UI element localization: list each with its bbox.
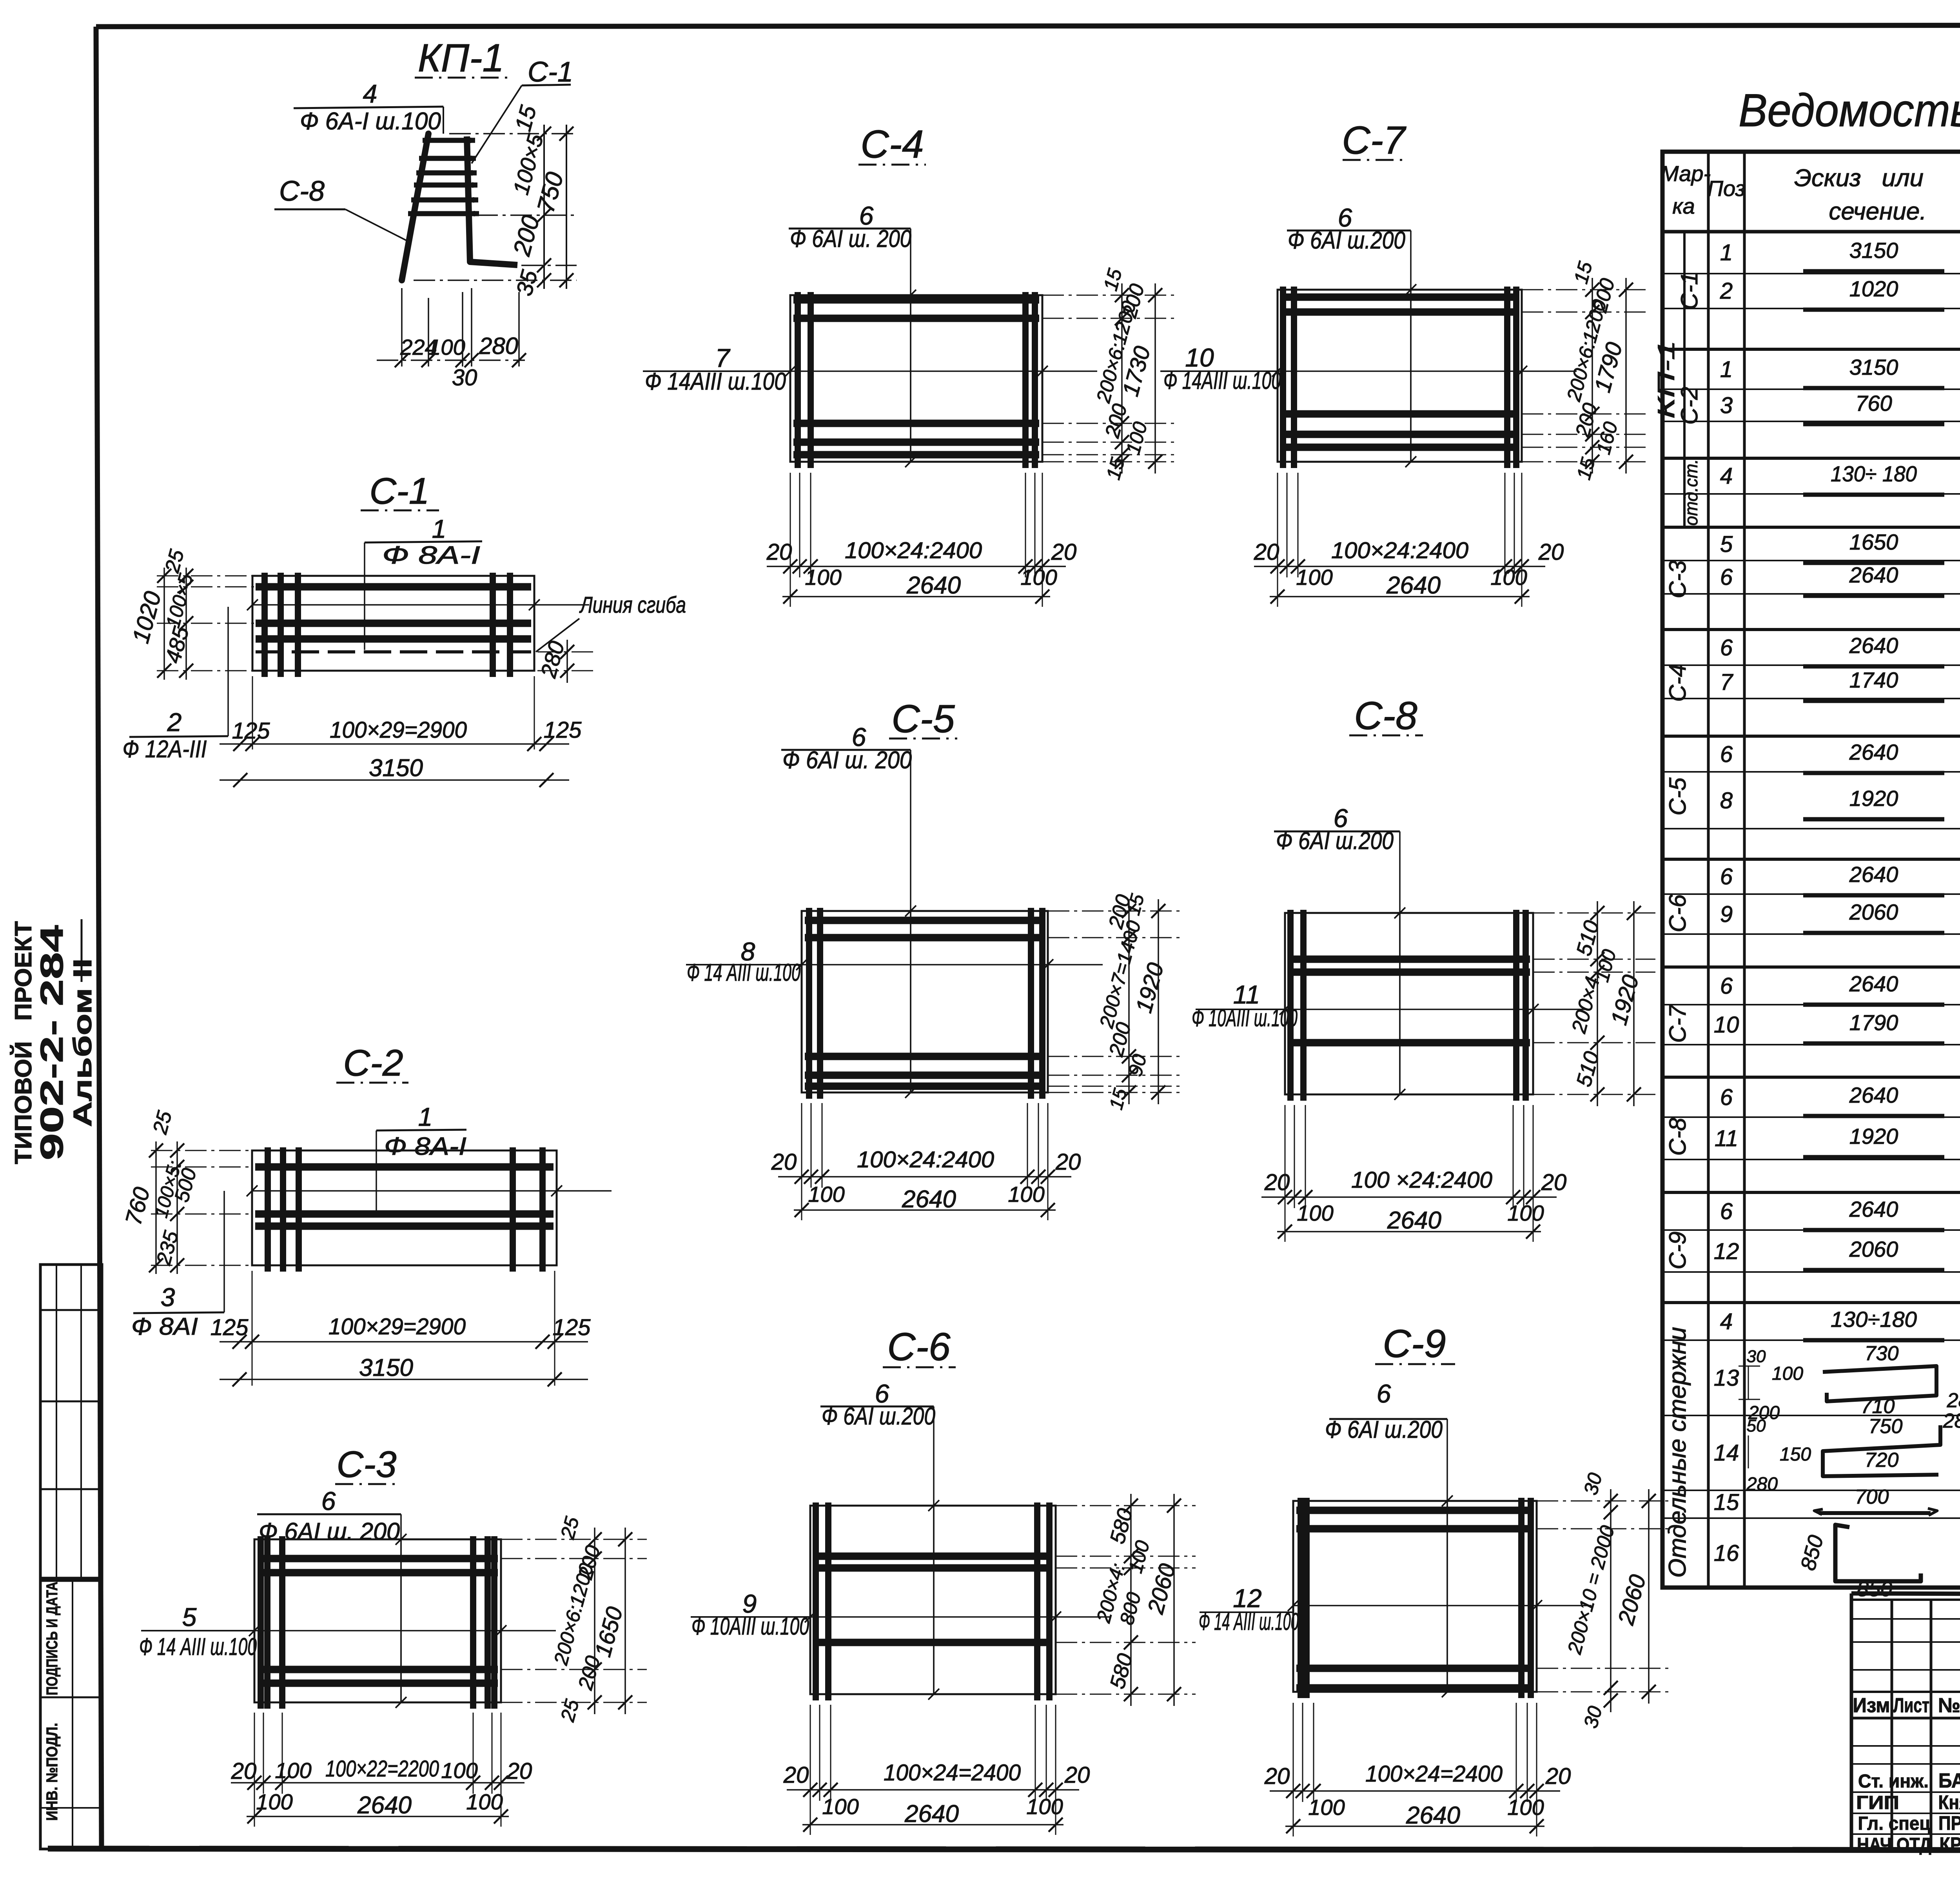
svg-text:30: 30 [1747, 1347, 1766, 1366]
thick horizontal bars [793, 296, 1039, 304]
svg-text:С-9: С-9 [1383, 1322, 1446, 1366]
svg-text:100: 100 [805, 565, 841, 590]
svg-text:3: 3 [1720, 393, 1733, 418]
svg-text:2640: 2640 [1386, 572, 1441, 599]
fold dashed line [256, 650, 531, 653]
svg-text:2640: 2640 [902, 1186, 956, 1213]
left margin lower stamp table [40, 1580, 102, 1849]
thick horizontal bars [813, 1553, 1053, 1560]
svg-text:С-8: С-8 [1664, 1118, 1691, 1156]
svg-text:30: 30 [452, 365, 477, 390]
svg-text:13: 13 [1714, 1365, 1739, 1391]
svg-text:100: 100 [1297, 1201, 1333, 1225]
svg-text:1020: 1020 [1849, 276, 1898, 301]
svg-text:С-6: С-6 [887, 1325, 951, 1369]
svg-text:1650: 1650 [1849, 530, 1898, 554]
bottom dimension lines [1277, 473, 1278, 577]
svg-text:Ф 6А-I ш.100: Ф 6А-I ш.100 [300, 108, 441, 135]
svg-text:Эскиз или: Эскиз или [1794, 165, 1924, 192]
right dimension lines [1533, 913, 1655, 914]
wire crossline [1293, 1605, 1592, 1606]
svg-text:Ф 12А-III: Ф 12А-III [123, 736, 207, 763]
svg-text:2640: 2640 [1406, 1802, 1460, 1829]
svg-text:100: 100 [1507, 1795, 1544, 1820]
svg-text:1790: 1790 [1849, 1010, 1898, 1035]
С-1 right dim 280 [537, 651, 596, 653]
mesh outline [252, 1150, 557, 1265]
svg-text:14: 14 [1714, 1440, 1739, 1466]
wire centerline [910, 911, 911, 1092]
svg-text:ПОДПИСЬ И ДАТА: ПОДПИСЬ И ДАТА [44, 1582, 61, 1695]
svg-text:1920: 1920 [1849, 1124, 1898, 1149]
svg-text:125: 125 [553, 1315, 591, 1340]
svg-text:НАЧ.ОТД: НАЧ.ОТД [1857, 1834, 1931, 1855]
svg-text:С-1: С-1 [369, 470, 429, 512]
svg-text:20: 20 [783, 1762, 809, 1788]
svg-text:2060: 2060 [1849, 1237, 1898, 1261]
svg-text:С-5: С-5 [891, 697, 955, 741]
right dimension lines [1042, 295, 1177, 296]
svg-text:ка: ка [1672, 194, 1695, 218]
svg-text:С-6: С-6 [1664, 894, 1691, 932]
bottom dimension lines [801, 1103, 802, 1188]
svg-text:100×22=2200: 100×22=2200 [325, 1756, 439, 1782]
svg-text:20: 20 [1051, 539, 1077, 565]
thick vertical bars [261, 573, 268, 677]
svg-text:С-4: С-4 [1664, 664, 1691, 702]
svg-text:100: 100 [441, 1758, 477, 1783]
С-2 left dims [151, 1150, 253, 1151]
svg-text:2640: 2640 [1849, 563, 1898, 587]
svg-text:Отдельные стержни: Отдельные стержни [1664, 1327, 1691, 1578]
svg-text:280: 280 [1746, 1474, 1778, 1495]
svg-text:Княгиничев: Княгиничев [1938, 1791, 1960, 1813]
svg-text:С-2: С-2 [1676, 387, 1702, 425]
svg-text:Поз: Поз [1707, 176, 1745, 201]
wire centerline [1446, 1501, 1448, 1692]
svg-text:2640: 2640 [1849, 1197, 1898, 1221]
svg-text:730: 730 [1865, 1342, 1899, 1365]
wire centerline [1410, 290, 1412, 462]
thick vertical bars [1287, 910, 1294, 1101]
svg-text:20: 20 [231, 1758, 257, 1784]
svg-text:6: 6 [321, 1486, 336, 1515]
wire centerline [1399, 913, 1401, 1094]
thick vertical bars [813, 1502, 819, 1700]
svg-text:5: 5 [1720, 532, 1733, 557]
svg-text:сечение.: сечение. [1829, 198, 1927, 225]
bottom dimension lines [254, 1713, 255, 1794]
svg-text:Ф 10АIII ш.100: Ф 10АIII ш.100 [691, 1613, 809, 1640]
svg-text:125: 125 [211, 1315, 249, 1340]
svg-text:2640: 2640 [1849, 740, 1898, 764]
wire crossline [790, 370, 1097, 372]
svg-text:125: 125 [232, 718, 270, 744]
title block inner grid left [1891, 1600, 1893, 1849]
svg-text:16: 16 [1714, 1541, 1739, 1566]
svg-text:10: 10 [1714, 1012, 1739, 1038]
svg-text:С-3: С-3 [1664, 561, 1691, 599]
thick horizontal bars [1288, 956, 1530, 963]
svg-text:100: 100 [822, 1794, 858, 1819]
mesh outline [1278, 290, 1522, 462]
svg-text:6: 6 [1720, 1085, 1733, 1110]
svg-text:Ф 8А-I: Ф 8А-I [384, 1132, 466, 1160]
svg-text:Ф 14 АIII ш.100: Ф 14 АIII ш.100 [139, 1633, 257, 1660]
svg-text:2060: 2060 [1849, 900, 1898, 924]
С-2 bottom dims [252, 1271, 253, 1386]
svg-text:Ф 6АI ш.200: Ф 6АI ш.200 [1325, 1416, 1443, 1443]
svg-text:6: 6 [1720, 973, 1733, 999]
svg-text:Мар-: Мар- [1661, 161, 1711, 186]
thick vertical bars [806, 908, 812, 1099]
svg-text:8: 8 [1720, 788, 1733, 813]
svg-text:20: 20 [1064, 1762, 1090, 1788]
svg-text:6: 6 [1720, 635, 1733, 660]
svg-text:Изм: Изм [1853, 1694, 1890, 1717]
svg-text:760: 760 [1855, 391, 1892, 416]
svg-text:700: 700 [1855, 1486, 1889, 1508]
svg-text:С-4: С-4 [860, 122, 924, 166]
svg-text:3150: 3150 [1849, 355, 1898, 379]
КП-1 ladder left rail С-8 bar [402, 134, 428, 280]
svg-text:50: 50 [1747, 1416, 1766, 1435]
svg-text:2640: 2640 [1849, 862, 1898, 887]
svg-text:100: 100 [1507, 1201, 1544, 1225]
svg-text:С-8: С-8 [1354, 694, 1417, 738]
svg-text:20: 20 [1055, 1149, 1081, 1175]
left margin upper stamp table [40, 1265, 102, 1578]
svg-text:ПРОНИН: ПРОНИН [1938, 1812, 1960, 1834]
КП-1 right dimension lines [449, 133, 577, 134]
wire crossline [252, 1190, 612, 1192]
svg-text:100×24:2400: 100×24:2400 [845, 538, 982, 563]
svg-text:Ф 14 АIII ш.100: Ф 14 АIII ш.100 [1199, 1608, 1299, 1635]
thick horizontal bars [805, 917, 1045, 924]
svg-text:2: 2 [167, 708, 182, 737]
svg-text:Ф 8АI: Ф 8АI [131, 1313, 198, 1340]
svg-text:КРАСАВИН: КРАСАВИН [1940, 1833, 1960, 1855]
svg-text:20: 20 [1264, 1170, 1290, 1195]
svg-text:1: 1 [432, 514, 446, 543]
svg-text:С-2: С-2 [343, 1042, 403, 1084]
svg-text:Ф 6АI ш. 200: Ф 6АI ш. 200 [782, 747, 912, 774]
svg-text:20: 20 [1545, 1764, 1571, 1789]
wire crossline [254, 1630, 556, 1631]
thick horizontal bars [1296, 1507, 1534, 1514]
svg-text:2640: 2640 [1849, 1083, 1898, 1107]
svg-text:20: 20 [771, 1149, 797, 1175]
svg-text:БАЗАНОВ: БАЗАНОВ [1938, 1769, 1960, 1792]
right dimension lines [1056, 1505, 1196, 1506]
svg-text:ИНВ. №ПОДЛ.: ИНВ. №ПОДЛ. [44, 1723, 61, 1821]
svg-text:20: 20 [1538, 539, 1564, 565]
right dimension lines [1048, 911, 1180, 912]
bottom dimension lines [1293, 1703, 1294, 1802]
svg-text:Ф 6АI ш.200: Ф 6АI ш.200 [1288, 227, 1405, 254]
bottom dimension lines [790, 473, 791, 577]
svg-text:130÷ 180: 130÷ 180 [1831, 461, 1917, 486]
svg-text:Лист: Лист [1893, 1694, 1929, 1717]
page border frame [96, 25, 1960, 27]
svg-text:С-8: С-8 [279, 176, 325, 207]
mesh outline [1293, 1501, 1537, 1692]
left bar schedule table [1662, 152, 1960, 1588]
mesh outline [254, 1539, 501, 1702]
svg-text:11: 11 [1715, 1126, 1738, 1151]
svg-text:100: 100 [1296, 565, 1332, 590]
svg-text:100×29=2900: 100×29=2900 [328, 1314, 466, 1339]
svg-text:20: 20 [1254, 539, 1279, 565]
svg-text:6: 6 [1720, 864, 1733, 889]
svg-text:20: 20 [766, 539, 792, 565]
thick horizontal bars [258, 1555, 498, 1562]
svg-text:ТИПОВОЙ ПРОЕКТ: ТИПОВОЙ ПРОЕКТ [10, 921, 36, 1164]
thick vertical bars [265, 1147, 271, 1272]
svg-text:20: 20 [1541, 1170, 1567, 1195]
mesh outline [790, 295, 1042, 462]
svg-text:100: 100 [1008, 1182, 1044, 1207]
thick horizontal bars [255, 1163, 554, 1171]
svg-text:Линия сгиба: Линия сгиба [579, 592, 686, 618]
svg-text:2640: 2640 [1387, 1207, 1441, 1234]
svg-text:Ф 8А-I: Ф 8А-I [382, 541, 480, 569]
КП-1 bottom dimensions [401, 288, 403, 367]
svg-text:280: 280 [1943, 1410, 1960, 1432]
svg-text:отд.ст.: отд.ст. [1681, 459, 1701, 526]
svg-text:15: 15 [1714, 1490, 1739, 1515]
svg-text:С-9: С-9 [1664, 1232, 1691, 1270]
svg-text:№ докум.: № докум. [1938, 1694, 1960, 1717]
svg-text:20: 20 [506, 1758, 532, 1784]
svg-text:100×24:2400: 100×24:2400 [857, 1147, 994, 1172]
svg-text:100: 100 [1490, 565, 1527, 590]
svg-text:3150: 3150 [1849, 238, 1898, 263]
thick vertical bars [795, 292, 801, 468]
svg-text:1: 1 [1720, 240, 1733, 265]
mesh outline [252, 576, 534, 671]
thick horizontal bars [1281, 294, 1519, 301]
svg-text:Ф 6АI ш. 200: Ф 6АI ш. 200 [790, 225, 911, 252]
mesh outline [802, 911, 1048, 1092]
thick vertical bars [1280, 287, 1286, 468]
bottom dimension lines [810, 1705, 811, 1801]
wire centerline [400, 1539, 402, 1702]
svg-text:Альбом II: Альбом II [68, 958, 97, 1127]
svg-text:100: 100 [1308, 1795, 1345, 1820]
svg-text:100×29=2900: 100×29=2900 [330, 717, 467, 743]
svg-text:2: 2 [1720, 278, 1733, 304]
svg-text:Ф 14АIII ш.100: Ф 14АIII ш.100 [645, 368, 786, 395]
svg-text:С-1: С-1 [528, 56, 573, 88]
svg-text:С-7: С-7 [1664, 1004, 1691, 1043]
thick horizontal bars [256, 583, 531, 591]
wire crossline [252, 604, 589, 606]
thick vertical bars [1298, 1498, 1304, 1698]
svg-text:Гл. спец: Гл. спец [1858, 1813, 1931, 1834]
svg-text:1920: 1920 [1849, 786, 1898, 811]
svg-text:100 ×24:2400: 100 ×24:2400 [1351, 1167, 1492, 1193]
svg-text:100: 100 [1026, 1794, 1063, 1819]
svg-text:280: 280 [1947, 1389, 1960, 1412]
svg-text:130÷180: 130÷180 [1831, 1307, 1917, 1332]
svg-text:Ф 14АIII ш.100: Ф 14АIII ш.100 [1163, 367, 1281, 394]
wire centerline [933, 1506, 935, 1694]
svg-text:5: 5 [182, 1602, 197, 1631]
mesh outline [810, 1506, 1056, 1694]
title block frame [1851, 1593, 1960, 1596]
svg-text:3150: 3150 [369, 755, 423, 782]
thick vertical bars [258, 1536, 264, 1709]
svg-text:4: 4 [363, 79, 377, 108]
С-1 bottom dims [252, 676, 253, 749]
svg-text:3150: 3150 [359, 1354, 413, 1381]
svg-text:100: 100 [466, 1789, 503, 1814]
svg-text:С-7: С-7 [1342, 118, 1406, 162]
svg-text:9: 9 [1720, 902, 1733, 927]
svg-text:20: 20 [1264, 1764, 1290, 1789]
svg-text:КП-1: КП-1 [418, 36, 504, 80]
svg-text:7: 7 [1720, 670, 1734, 695]
svg-text:6: 6 [1377, 1379, 1391, 1408]
svg-text:150: 150 [1780, 1444, 1811, 1465]
svg-text:1: 1 [1720, 357, 1733, 382]
svg-text:3: 3 [161, 1283, 175, 1312]
svg-text:100×24:2400: 100×24:2400 [1331, 538, 1468, 563]
svg-text:6: 6 [1720, 1199, 1733, 1224]
svg-text:2640: 2640 [1849, 633, 1898, 658]
svg-text:6: 6 [1720, 742, 1733, 767]
svg-text:720: 720 [1865, 1449, 1899, 1472]
wire crossline [802, 964, 1103, 965]
svg-text:2640: 2640 [1849, 971, 1898, 996]
svg-text:280: 280 [479, 333, 518, 359]
wire crossline [1285, 1009, 1588, 1010]
svg-text:100: 100 [256, 1789, 292, 1814]
svg-text:100×24=2400: 100×24=2400 [884, 1760, 1021, 1785]
wire centerline [910, 295, 911, 462]
svg-text:С-5: С-5 [1664, 777, 1691, 815]
svg-text:1740: 1740 [1849, 668, 1898, 692]
КП-1 ladder right rail С-1 bent bar [467, 136, 517, 265]
right dimension lines [1537, 1501, 1670, 1502]
svg-text:КП-1: КП-1 [1653, 340, 1679, 419]
svg-text:12: 12 [1714, 1239, 1739, 1264]
svg-text:100: 100 [1020, 565, 1057, 590]
svg-text:Ф 10АIII ш.100: Ф 10АIII ш.100 [1192, 1005, 1298, 1032]
svg-text:2640: 2640 [904, 1800, 959, 1827]
svg-text:100: 100 [808, 1182, 844, 1207]
left table sub-divider КП-1 [1683, 232, 1686, 527]
svg-text:4: 4 [1720, 463, 1733, 489]
С-1 left dims [157, 575, 254, 577]
svg-text:100×24=2400: 100×24=2400 [1365, 1761, 1503, 1787]
svg-text:100: 100 [428, 335, 465, 359]
svg-text:Ст. инж.: Ст. инж. [1858, 1771, 1929, 1792]
svg-text:С-3: С-3 [336, 1444, 396, 1485]
svg-text:2640: 2640 [357, 1792, 412, 1819]
svg-text:100: 100 [275, 1758, 311, 1783]
svg-text:Ф 14 АIII ш.100: Ф 14 АIII ш.100 [687, 959, 800, 986]
КП-1 rungs (6 cross wires) [423, 138, 475, 143]
svg-text:4: 4 [1720, 1309, 1733, 1334]
svg-text:С-1: С-1 [1676, 272, 1702, 310]
wire crossline [1278, 370, 1577, 372]
mesh outline [1285, 913, 1533, 1094]
svg-text:6: 6 [1720, 564, 1733, 590]
svg-text:Ф 6АI ш.200: Ф 6АI ш.200 [822, 1403, 935, 1430]
right dimension lines [1522, 289, 1648, 290]
svg-text:125: 125 [544, 717, 582, 743]
svg-text:Ф 6АI ш.200: Ф 6АI ш.200 [1276, 827, 1394, 855]
wire crossline [810, 1616, 1111, 1618]
svg-text:ГИП: ГИП [1856, 1793, 1899, 1813]
svg-text:1: 1 [418, 1102, 433, 1131]
svg-text:750: 750 [1869, 1415, 1903, 1438]
svg-text:100: 100 [1772, 1363, 1803, 1384]
bottom dimension lines [1285, 1105, 1286, 1208]
svg-text:2640: 2640 [906, 572, 961, 599]
svg-text:902-2- 284: 902-2- 284 [34, 925, 70, 1160]
right dimension lines [501, 1539, 647, 1540]
svg-text:Ведомость стержней на один: Ведомость стержней на один элемент [1739, 85, 1960, 136]
